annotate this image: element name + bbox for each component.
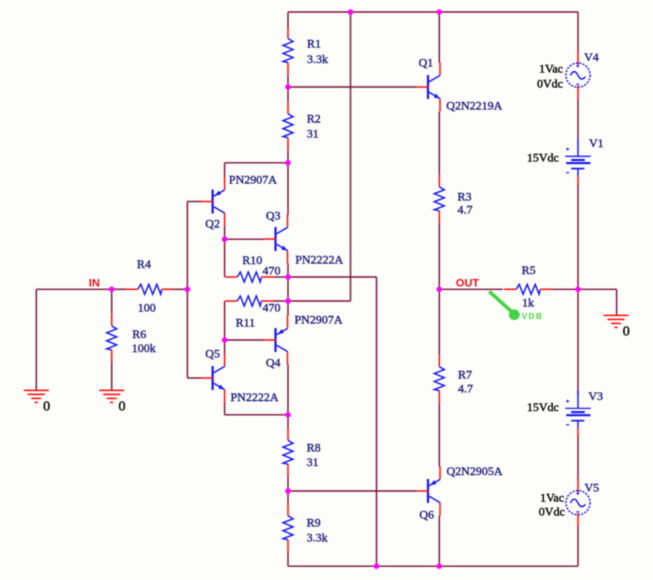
junction OUT node (437, 287, 443, 293)
wire Q4 collector down (287, 365, 289, 415)
svg-text:Q2: Q2 (205, 217, 220, 231)
svg-text:Q1: Q1 (419, 56, 434, 70)
wire node D to Q4 emitter (287, 301, 289, 316)
svg-text:470: 470 (263, 264, 281, 278)
svg-text:15Vdc: 15Vdc (527, 151, 559, 165)
junction driver input node (185, 287, 191, 293)
svg-text:31: 31 (307, 455, 319, 469)
wire OUT node to R5 (439, 288, 503, 290)
VDB probe marker (489, 291, 520, 320)
svg-text:V3: V3 (588, 389, 603, 403)
svg-text:R10: R10 (242, 253, 262, 267)
junction node B (285, 160, 291, 166)
wire V4 to V1 (577, 99, 579, 139)
svg-text:Q2N2219A: Q2N2219A (446, 99, 502, 113)
wire to Q5 base (187, 377, 201, 379)
resistor R1 (283, 26, 293, 74)
resistor R7 (434, 354, 444, 402)
wire R6 to ground (111, 362, 113, 390)
voltage source V3 (VDC battery) (565, 391, 591, 438)
wire node H to Q4 base (225, 339, 265, 341)
wire Q2 emitter to node B (225, 162, 288, 164)
wire R9 bottom to rail (287, 552, 289, 566)
svg-text:R3: R3 (458, 190, 472, 204)
transistor Q1 (NPN Q2N2219A) (417, 62, 441, 111)
resistor R4 (126, 284, 174, 294)
svg-text:1k: 1k (522, 296, 534, 310)
svg-text:PN2907A: PN2907A (229, 173, 277, 187)
wire V5 to bottom rail (577, 527, 579, 567)
svg-text:R2: R2 (307, 112, 321, 126)
wire Q1 emitter to R3 (438, 112, 440, 175)
svg-text:4.7: 4.7 (458, 382, 473, 396)
voltage source V5 (VSIN/VAC) (566, 479, 590, 527)
svg-text:VDB: VDB (522, 312, 544, 321)
wire rail to ground right (578, 288, 617, 290)
svg-text:R6: R6 (132, 327, 146, 341)
svg-text:1Vac: 1Vac (540, 491, 564, 505)
wire OUT node to R7 (438, 289, 440, 354)
wire Q6 collector to rail (438, 516, 440, 567)
transistor Q6 (PNP Q2N2905A) (417, 466, 441, 515)
svg-text:OUT: OUT (456, 277, 480, 289)
wire R5 to rail (552, 288, 578, 290)
wire node G down to R10 (224, 239, 226, 277)
svg-text:R5: R5 (522, 263, 536, 277)
svg-text:PN2222A: PN2222A (231, 390, 279, 404)
svg-text:R9: R9 (307, 516, 321, 530)
svg-text:Q5: Q5 (205, 347, 220, 361)
svg-text:0Vdc: 0Vdc (537, 77, 563, 91)
resistor R9 (283, 504, 293, 552)
transistor Q5 (NPN PN2222A) (201, 353, 225, 402)
junction node F (285, 488, 291, 494)
wire top rail to V4 (577, 12, 579, 51)
ground G1 (0) (24, 390, 49, 402)
svg-text:15Vdc: 15Vdc (527, 400, 559, 414)
svg-text:31: 31 (307, 127, 319, 141)
transistor Q4 (PNP PN2907A) (264, 315, 288, 364)
wire R7 to Q6 emitter (438, 403, 440, 467)
wire IN node to R4 (112, 288, 126, 290)
junction rail OUT node (575, 287, 581, 293)
wire Q5 emitter to node E (225, 414, 288, 416)
wire R1 bottom to node A (287, 75, 289, 87)
svg-text:V4: V4 (584, 50, 599, 64)
ground G2 (0) (99, 390, 124, 402)
transistor Q2 (PNP PN2907A) (201, 177, 225, 226)
wire R2 bottom to node B (287, 150, 289, 163)
junction bottom rail / Q6 collector (437, 563, 443, 569)
wire Q5 emitter down (224, 402, 226, 414)
wire to Q2 base (187, 201, 201, 203)
svg-text:R7: R7 (458, 368, 472, 382)
svg-text:100k: 100k (132, 341, 156, 355)
svg-text:Q6: Q6 (419, 508, 434, 522)
resistor R3 (434, 175, 444, 223)
junction top rail / Q1 collector (437, 9, 443, 15)
svg-text:0: 0 (623, 325, 630, 340)
wire vertical to bottom rail (376, 277, 378, 566)
svg-text:Q4: Q4 (266, 356, 281, 370)
wire node D right (288, 300, 351, 302)
wire R11 to node D (274, 300, 289, 302)
wire driver node vertical (186, 202, 188, 379)
svg-text:PN2222A: PN2222A (295, 253, 343, 267)
junction node A (285, 84, 291, 90)
svg-text:470: 470 (263, 301, 281, 315)
wire OUT rail to V3 (577, 289, 579, 394)
resistor R5 (504, 284, 552, 294)
wire node A to R2 (287, 87, 289, 102)
junction bottom rail / wire A (374, 563, 380, 569)
junction node G (222, 236, 228, 242)
svg-text:R1: R1 (307, 37, 321, 51)
svg-text:R8: R8 (307, 441, 321, 455)
svg-text:3.3k: 3.3k (307, 531, 328, 545)
wire vertical to top rail (350, 12, 352, 301)
svg-text:3.3k: 3.3k (307, 52, 328, 66)
wire R11 left down (224, 301, 226, 340)
wire down to ground (616, 289, 618, 315)
wire top rail (288, 11, 578, 13)
svg-text:V1: V1 (589, 136, 604, 150)
svg-text:PN2907A: PN2907A (295, 313, 343, 327)
svg-text:0Vdc: 0Vdc (539, 505, 565, 519)
svg-text:R4: R4 (137, 257, 151, 271)
junction node E (285, 412, 291, 418)
svg-text:IN: IN (89, 278, 100, 290)
wire R3 to OUT node (438, 223, 440, 289)
wire bottom rail (288, 565, 578, 567)
wire R10 to node C (274, 276, 289, 278)
wire R1 top (287, 12, 289, 28)
wire V3 to V5 (577, 437, 579, 479)
wire node F to Q6 base (288, 490, 417, 492)
junction node C (285, 274, 291, 280)
wire IN node left (36, 288, 111, 290)
svg-text:100: 100 (138, 301, 156, 315)
wire node H down to Q5 collector (224, 340, 226, 354)
wire top rail to Q1 collector (438, 12, 440, 63)
junction top rail / wire B (348, 9, 354, 15)
resistor R11 (225, 296, 273, 306)
ground G3 (0) (604, 315, 629, 327)
voltage source V4 (VSIN/VAC) (566, 51, 590, 99)
wire Q3 emitter to node C (287, 264, 289, 278)
junction node D (285, 298, 291, 304)
wire left down to ground (35, 289, 37, 390)
junction IN node (109, 287, 115, 293)
wire node B down to Q3 collector (287, 163, 289, 215)
wire node E to R8 (287, 415, 289, 428)
wire node F to R9 (287, 491, 289, 504)
wire Q2 collector to node G (224, 226, 226, 239)
svg-text:0: 0 (43, 400, 50, 415)
wire node A to Q1 base (288, 86, 417, 88)
resistor R10 (225, 272, 273, 282)
wire node G to Q3 base (225, 238, 265, 240)
wire V1 to OUT rail (577, 185, 579, 289)
transistor Q3 (NPN PN2222A) (264, 214, 288, 263)
svg-text:V5: V5 (585, 481, 600, 495)
svg-text:4.7: 4.7 (458, 203, 473, 217)
wire node C right (288, 276, 377, 278)
resistor R6 (107, 314, 117, 362)
junction node H (222, 337, 228, 343)
wire IN node down to R6 (111, 289, 113, 314)
wire node C to node D (287, 277, 289, 301)
svg-text:R11: R11 (236, 316, 256, 330)
wire R8 bottom to node F (287, 476, 289, 491)
svg-text:0: 0 (119, 400, 126, 415)
resistor R2 (283, 102, 293, 150)
resistor R8 (283, 428, 293, 476)
wire Q2 emitter up (224, 163, 226, 177)
svg-text:1Vac: 1Vac (539, 62, 563, 76)
svg-text:Q2N2905A: Q2N2905A (447, 464, 503, 478)
voltage source V1 (VDC battery) (565, 139, 591, 186)
svg-text:Q3: Q3 (266, 209, 281, 223)
wire R4 to driver node (174, 288, 188, 290)
